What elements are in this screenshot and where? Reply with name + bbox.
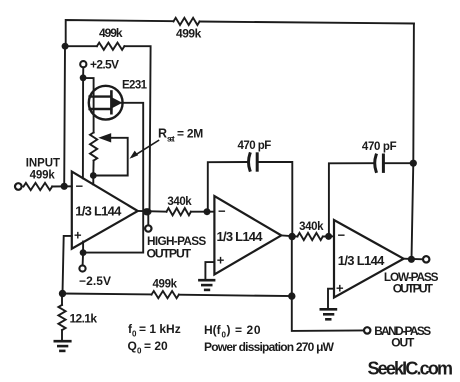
wire A3 output xyxy=(404,258,423,261)
wire capacitor C2 to right vertical xyxy=(383,162,413,164)
svg-text:−: − xyxy=(76,179,84,194)
resistor 499k top xyxy=(174,18,200,25)
wire input resistor to node xyxy=(52,185,72,187)
node junction +2.5V xyxy=(80,74,87,81)
op-amp U2 1/3 L144 xyxy=(214,196,281,274)
svg-text:499k: 499k xyxy=(99,26,123,40)
wire A2 output xyxy=(281,235,297,236)
node LP output xyxy=(408,256,415,263)
svg-text:499k: 499k xyxy=(153,279,178,291)
ground A2 xyxy=(199,279,214,282)
wiper arrow of Rset xyxy=(93,138,127,176)
svg-text:1/3 L144: 1/3 L144 xyxy=(338,253,385,268)
svg-text:−: − xyxy=(218,204,226,219)
wire A1 V- pin stub xyxy=(82,242,84,253)
svg-text:+: + xyxy=(217,253,225,268)
resistor 340k second xyxy=(297,233,322,240)
wire right vertical from top wire to LP output node xyxy=(412,24,414,260)
wire 12.1k to ground xyxy=(61,330,63,341)
svg-text:Q: Q xyxy=(128,339,137,353)
svg-text:SeekIC.com: SeekIC.com xyxy=(368,358,454,378)
resistor 340k first xyxy=(167,208,191,215)
wire +2.5V to op-amp A1 V+ pin xyxy=(82,78,84,179)
node band-pass / bottom wire junction xyxy=(288,292,295,299)
arrow from Rset label to box xyxy=(133,141,159,157)
svg-text:470 pF: 470 pF xyxy=(238,140,272,152)
terminal HIGH-PASS OUTPUT xyxy=(145,225,151,231)
resistor 499k bottom xyxy=(152,291,179,298)
node V- junction xyxy=(80,249,87,256)
node inverting input A1 xyxy=(61,183,68,190)
wire top feedback from LP output to inverting node xyxy=(66,20,174,48)
transistor E231 gate arms xyxy=(90,95,112,97)
svg-text:= 2M: = 2M xyxy=(177,127,203,141)
terminal LOW-PASS OUTPUT xyxy=(423,256,429,262)
wire A1 + input xyxy=(63,236,72,294)
wire A2 + input to ground xyxy=(205,262,214,280)
node A1 output (high-pass node) xyxy=(142,208,151,215)
node bottom left junction xyxy=(59,290,66,297)
svg-text:−2.5V: −2.5V xyxy=(79,274,111,288)
wire capacitor C1 to A2 output xyxy=(257,162,292,237)
svg-text:499k: 499k xyxy=(176,27,202,41)
transistor E231 channel bar xyxy=(110,92,113,114)
transistor E231 arrow xyxy=(112,98,122,108)
terminal -2.5V xyxy=(79,265,85,271)
terminal BAND-PASS OUT xyxy=(364,327,370,333)
svg-text:INPUT: INPUT xyxy=(26,158,60,170)
op-amp U3 1/3 L144 xyxy=(334,220,404,298)
terminal INPUT xyxy=(15,183,22,190)
resistor 499k second xyxy=(97,43,125,50)
svg-text:= 20: = 20 xyxy=(144,339,168,353)
svg-text:OUTPUT: OUTPUT xyxy=(393,282,434,296)
node C2 right junction xyxy=(410,160,417,167)
ground bottom-left xyxy=(55,340,71,343)
wire left vertical inverting-node bus xyxy=(63,46,66,186)
svg-text:+: + xyxy=(74,227,82,242)
svg-text:= 1 kHz: = 1 kHz xyxy=(139,322,181,336)
wire 340k to A2 xyxy=(191,211,215,213)
node A2 inverting input xyxy=(204,208,211,215)
svg-text:12.1k: 12.1k xyxy=(70,312,98,326)
node junction top-left xyxy=(62,43,69,50)
resistor 12.1k xyxy=(61,294,63,305)
capacitor C2 470pF plates xyxy=(375,155,376,171)
node A2 output (band-pass node) xyxy=(288,233,295,240)
node A3 inverting input xyxy=(325,233,332,240)
svg-text:340k: 340k xyxy=(299,221,324,233)
svg-text:E231: E231 xyxy=(122,80,148,92)
svg-text:0: 0 xyxy=(132,330,137,339)
wire A3 + input to ground xyxy=(328,289,334,309)
wire capacitor C1 riser left xyxy=(208,162,247,212)
svg-text:+2.5V: +2.5V xyxy=(90,58,119,72)
svg-text:499k: 499k xyxy=(30,170,56,182)
svg-text:H(f: H(f xyxy=(204,323,222,337)
svg-text:OUT: OUT xyxy=(391,336,415,350)
wire +2.5V stub to junction xyxy=(82,67,84,77)
svg-text:set: set xyxy=(167,134,175,143)
transistor Q1 E231 body circle xyxy=(89,86,123,120)
svg-text:0: 0 xyxy=(137,347,142,356)
op-amp U1 1/3 L144 xyxy=(72,172,138,249)
wire 340k-2 to A3 xyxy=(323,235,334,237)
wire bottom feedback xyxy=(63,293,152,296)
wire second feedback (A1 out to inverting node) xyxy=(65,45,97,47)
svg-text:OUTPUT: OUTPUT xyxy=(147,246,192,260)
resistor Rset zigzag xyxy=(90,133,97,161)
wire Rset bottom xyxy=(92,161,94,176)
svg-text:−: − xyxy=(338,228,346,243)
wire Rset junction to op-amp bias pin xyxy=(92,176,94,185)
wire capacitor C2 riser left xyxy=(329,163,373,236)
wire A1 output xyxy=(138,210,167,213)
resistor 499k input xyxy=(24,183,53,190)
wire E231 drain to minus rail xyxy=(83,103,143,253)
wire junction to JFET channel top xyxy=(83,78,94,132)
terminal +2.5V xyxy=(80,61,86,67)
wire band-pass drop xyxy=(292,237,364,331)
svg-text:) = 20: ) = 20 xyxy=(227,323,261,337)
capacitor C1 470pF plates xyxy=(249,154,250,170)
svg-text:1/3 L144: 1/3 L144 xyxy=(75,204,122,219)
svg-text:+: + xyxy=(336,280,344,295)
ground A3 xyxy=(321,308,336,311)
svg-text:340k: 340k xyxy=(167,196,192,208)
node Rset bottom junction xyxy=(90,172,97,179)
wire stub to -2.5V terminal xyxy=(82,253,85,266)
svg-text:Power dissipation 270 μW: Power dissipation 270 μW xyxy=(204,340,335,354)
svg-text:R: R xyxy=(158,127,167,141)
svg-text:1/3 L144: 1/3 L144 xyxy=(217,229,264,244)
wire stub to HP terminal xyxy=(147,212,149,225)
svg-text:470 pF: 470 pF xyxy=(362,141,397,153)
